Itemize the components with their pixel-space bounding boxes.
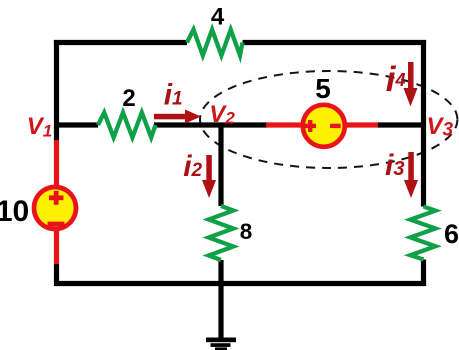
svg-text:5: 5	[315, 73, 331, 104]
svg-text:4: 4	[211, 4, 225, 31]
svg-text:2: 2	[122, 85, 135, 112]
svg-text:8: 8	[240, 219, 253, 244]
svg-text:6: 6	[444, 219, 459, 249]
svg-text:10: 10	[0, 195, 29, 228]
